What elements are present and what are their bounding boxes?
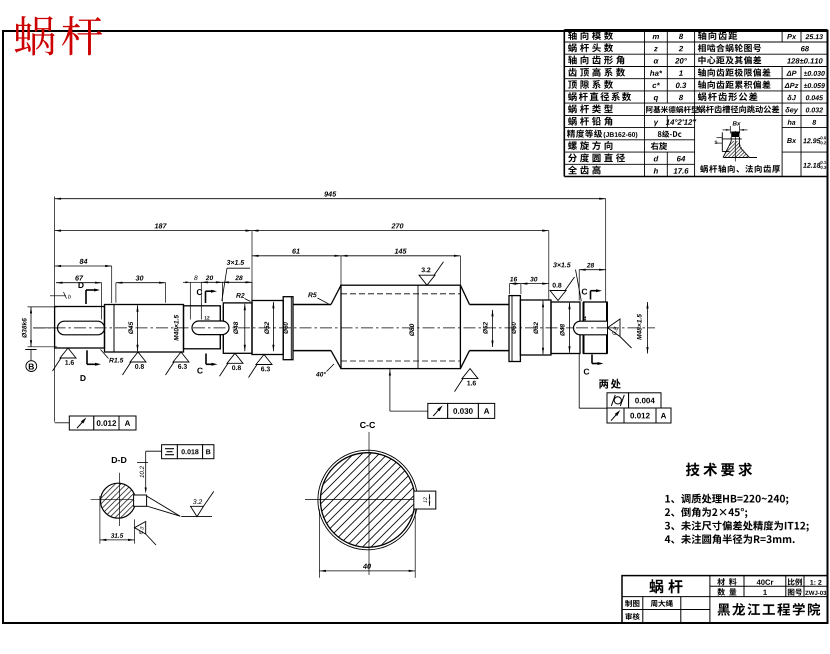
shaft section S2 phi45 xyxy=(105,305,184,353)
roughness 6.3 S6 xyxy=(256,355,272,365)
title block text xyxy=(649,579,682,593)
shaft collar S10 phi60 xyxy=(509,296,520,362)
tooth thickness sketch in table xyxy=(733,121,741,125)
red drawing title 蜗杆 xyxy=(15,16,103,55)
label phi52 S11 xyxy=(533,322,538,334)
dim 145 xyxy=(341,255,460,257)
shaft section S12 phi48 xyxy=(551,302,580,354)
dim 67 xyxy=(56,282,102,284)
keyway slot S13 xyxy=(574,321,607,335)
tech requirements heading xyxy=(686,463,752,477)
fcf runout 0.012 A right xyxy=(607,408,624,423)
datum B symbol xyxy=(25,349,36,351)
label phi80 xyxy=(409,324,414,336)
centerline stub left xyxy=(34,327,58,329)
label phi48 S12 xyxy=(560,324,565,336)
roughness 6.3 S2 xyxy=(173,352,189,362)
dim 61 xyxy=(252,255,341,257)
roughness 0.8 end face xyxy=(608,319,621,337)
roughness 1.6 S1 xyxy=(60,348,76,358)
label R5 xyxy=(308,293,317,298)
shaft section S11 phi52 xyxy=(520,300,551,355)
shaft section S6 phi52 xyxy=(252,301,283,355)
chamfer tick S1 xyxy=(50,295,66,297)
section view D-D xyxy=(112,457,127,463)
label R1.5 xyxy=(109,358,123,363)
fcf symmetry 0.018 B xyxy=(146,450,162,452)
dim 16 collar xyxy=(510,283,521,285)
dim 20 keyway xyxy=(201,281,222,283)
dim 30 S11 xyxy=(521,283,549,285)
tech req line 3 xyxy=(665,521,809,532)
dim 187 xyxy=(55,230,252,232)
dim 30 xyxy=(116,282,166,284)
dim 28 end xyxy=(579,269,606,271)
shaft section S4 phi48 xyxy=(223,303,252,353)
shaft end section S13 M48 xyxy=(584,302,608,354)
dim 84 xyxy=(55,265,112,267)
roughness 0.8 S4 xyxy=(227,353,243,363)
fcf runout 0.030 A worm xyxy=(389,369,391,411)
roughness 0.8 S12 top xyxy=(550,291,566,301)
label liangchu two places xyxy=(599,379,621,389)
tech req line 1 xyxy=(665,494,788,505)
worm parameter table grid xyxy=(564,29,827,31)
relief groove 3x1.5 left xyxy=(219,306,221,349)
label 3x1.5 right xyxy=(553,262,571,267)
roughness 0.8 S2 xyxy=(130,352,146,362)
label M40x1.5 xyxy=(174,315,179,341)
dim 8 keyway xyxy=(183,281,190,283)
dim phi52 S9 xyxy=(483,322,488,334)
label phi48 S4 xyxy=(233,322,238,334)
roughness 3.2 worm top xyxy=(419,275,435,285)
roughness 1.6 worm bottom xyxy=(462,369,478,379)
label phi52 S6 xyxy=(264,322,269,334)
shaft collar S7 phi60 xyxy=(283,297,293,360)
dim 28 S4 xyxy=(222,281,252,283)
label R2 xyxy=(236,293,244,298)
section marker D top xyxy=(85,290,87,304)
fcf cylindricity 0.004 xyxy=(578,354,580,409)
dim 270 xyxy=(252,230,549,232)
section marker D bottom xyxy=(86,350,88,364)
section marker C top-right xyxy=(590,291,592,300)
dim M48x1.5 xyxy=(637,314,642,340)
keyway slot S1 xyxy=(58,321,105,335)
section marker C top-left xyxy=(205,291,207,303)
label phi45 xyxy=(128,322,133,334)
shaft section S3 M40 thread xyxy=(184,306,221,349)
label 40 deg xyxy=(316,372,326,377)
label 3x1.5 left xyxy=(227,260,245,265)
shaft centerline axis xyxy=(33,327,655,329)
relief groove right xyxy=(579,302,581,354)
shaft neck S9 xyxy=(470,304,510,306)
table sketch caption xyxy=(700,165,780,173)
fcf runout 0.012 A left xyxy=(55,422,70,424)
section marker C bottom-right xyxy=(591,355,593,364)
dimension extension lines xyxy=(54,197,56,307)
worm thread section phi80 xyxy=(331,285,341,304)
title block grid xyxy=(622,576,828,623)
worm parameter table text xyxy=(568,31,613,40)
tech req line 4 xyxy=(665,534,795,544)
label phi60 S7 xyxy=(283,322,288,334)
dim phi38k6 left xyxy=(30,307,32,347)
dim 945 overall xyxy=(55,198,606,200)
shaft section S1 phi38 xyxy=(55,307,105,349)
shaft neck S8 xyxy=(293,304,331,306)
label phi60 S10 xyxy=(511,322,516,334)
tech req line 2 xyxy=(665,507,747,518)
keyway slot S3 xyxy=(192,321,229,335)
section view C-C xyxy=(360,422,375,428)
section marker C bottom-left xyxy=(205,354,207,365)
